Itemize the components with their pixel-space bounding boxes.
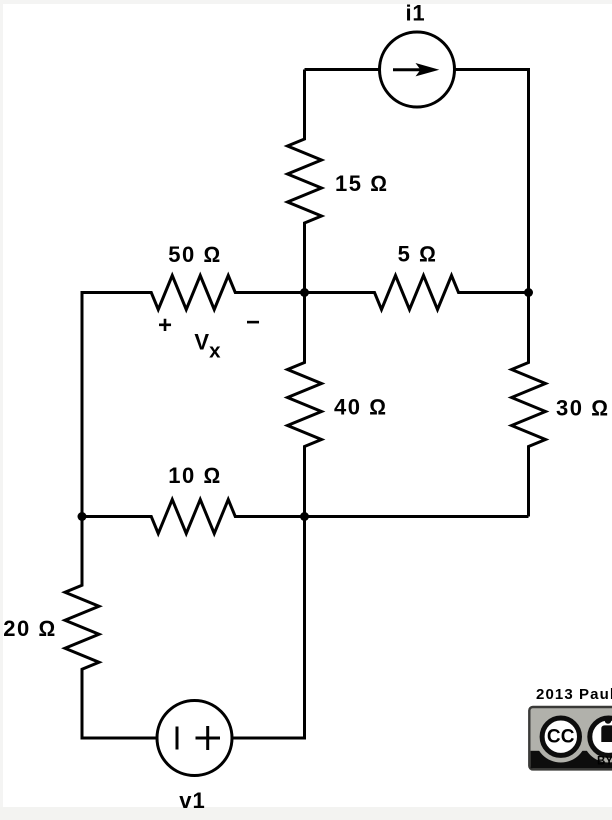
svg-text:30 Ω: 30 Ω bbox=[556, 395, 609, 420]
svg-text:2013 Paul R: 2013 Paul R bbox=[536, 686, 612, 703]
svg-text:50 Ω: 50 Ω bbox=[168, 242, 221, 267]
svg-text:v1: v1 bbox=[179, 788, 205, 813]
node junction right-mid bbox=[524, 288, 533, 297]
svg-text:Vx: Vx bbox=[194, 330, 221, 363]
wire lower-right horizontal bbox=[305, 515, 529, 518]
svg-text:CC: CC bbox=[547, 726, 575, 747]
svg-text:5 Ω: 5 Ω bbox=[398, 242, 438, 267]
CC BY license badge bbox=[529, 707, 612, 769]
node junction middle-lower bbox=[300, 512, 309, 521]
wire top-right horizontal bbox=[454, 68, 529, 71]
svg-text:40 Ω: 40 Ω bbox=[334, 395, 387, 420]
wire left rail upper bbox=[81, 291, 84, 517]
page bottom gray strip bbox=[0, 807, 612, 820]
node junction middle-mid bbox=[300, 288, 309, 297]
wire bottom-left horizontal bbox=[81, 737, 158, 740]
svg-text:+: + bbox=[158, 312, 172, 339]
resistor 15ohm bbox=[288, 70, 322, 293]
page left gray strip bbox=[0, 4, 3, 807]
current source i1 bbox=[380, 32, 455, 107]
resistor 5ohm bbox=[305, 276, 529, 310]
svg-text:15 Ω: 15 Ω bbox=[335, 171, 388, 196]
voltage source v1 bbox=[157, 701, 232, 776]
svg-text:BY: BY bbox=[597, 755, 612, 767]
svg-text:10 Ω: 10 Ω bbox=[168, 463, 221, 488]
wire bottom-right horizontal bbox=[232, 737, 306, 740]
wire top-left horizontal bbox=[305, 68, 381, 71]
svg-text:20 Ω: 20 Ω bbox=[3, 616, 56, 641]
resistor 50ohm bbox=[82, 276, 305, 310]
resistor 30ohm bbox=[512, 293, 546, 517]
svg-text:i1: i1 bbox=[406, 1, 426, 26]
svg-text:−: − bbox=[246, 309, 260, 336]
wire middle rail lower bbox=[303, 517, 306, 740]
wire right rail upper bbox=[527, 68, 530, 293]
resistor 40ohm bbox=[288, 293, 322, 517]
resistor 10ohm bbox=[82, 500, 305, 534]
page top gray strip bbox=[0, 0, 612, 4]
resistor 20ohm bbox=[65, 517, 99, 739]
node junction left-lower bbox=[78, 512, 87, 521]
